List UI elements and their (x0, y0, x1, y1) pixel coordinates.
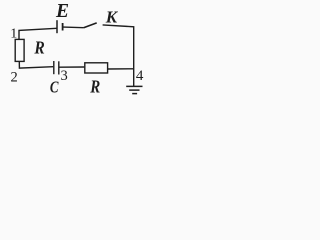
svg-text:R: R (34, 38, 45, 58)
svg-text:2: 2 (11, 70, 18, 86)
svg-text:4: 4 (136, 68, 144, 84)
wire resistor R2 to node 4 junction (108, 68, 134, 70)
svg-text:E: E (55, 1, 69, 22)
wire node 2 corner to capacitor left plate (19, 61, 53, 68)
battery E short plate (62, 23, 64, 31)
svg-text:C: C (50, 78, 59, 97)
wire capacitor to resistor R2 (59, 66, 84, 68)
wire node 1 corner to battery left plate (19, 28, 57, 39)
capacitor C left plate (53, 61, 55, 74)
switch K blade (84, 23, 97, 28)
resistor R1 box (left R) (15, 39, 24, 61)
ground at node 4 (126, 86, 142, 93)
svg-text:3: 3 (61, 68, 68, 84)
wire battery to switch pivot (64, 26, 84, 29)
capacitor C right plate (58, 61, 60, 74)
resistor R2 box (bottom R) (85, 63, 108, 73)
svg-text:K: K (105, 7, 119, 26)
svg-text:1: 1 (10, 26, 17, 41)
battery E long plate (56, 20, 58, 33)
wire switch contact to node 4 down right side (103, 25, 134, 86)
svg-text:R: R (89, 77, 100, 97)
